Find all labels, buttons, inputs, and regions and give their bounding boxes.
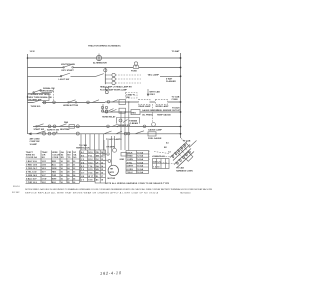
- svg-text:GAUGE LAMP: GAUGE LAMP: [148, 128, 163, 131]
- svg-text:ALTERNATOR: ALTERNATOR: [93, 61, 107, 64]
- svg-text:TO CAB: TO CAB: [79, 144, 87, 147]
- svg-text:MTR: MTR: [110, 172, 115, 174]
- svg-text:LIGHT SW: LIGHT SW: [59, 79, 71, 81]
- svg-text:7 PUR 16 G: 7 PUR 16 G: [26, 182, 37, 184]
- svg-text:NOTE ALL WIRING HARNESS CONN T: NOTE ALL WIRING HARNESS CONN TO BE SEALE…: [105, 182, 170, 185]
- svg-text:16 P: 16 P: [42, 175, 47, 177]
- svg-text:GA: GA: [73, 154, 77, 157]
- svg-text:2 RED 12 B: 2 RED 12 B: [26, 165, 37, 167]
- svg-text:GA: GA: [96, 165, 100, 168]
- svg-text:BLU: BLU: [52, 165, 57, 167]
- svg-text:17 W: 17 W: [42, 179, 47, 181]
- svg-text:NO: NO: [68, 155, 71, 157]
- svg-text:4 YEL 14 D: 4 YEL 14 D: [26, 171, 37, 174]
- svg-text:13 B: 13 B: [42, 165, 47, 167]
- svg-text:TRAC: TRAC: [42, 151, 48, 154]
- svg-text:START SW: START SW: [34, 128, 45, 131]
- svg-text:REG: REG: [132, 112, 137, 114]
- svg-text:6 BLU 16 F: 6 BLU 16 F: [26, 179, 37, 181]
- svg-text:GND: GND: [120, 159, 125, 161]
- svg-text:MOTOR: MOTOR: [108, 178, 116, 180]
- svg-text:1 BLK: 1 BLK: [127, 152, 133, 154]
- svg-text:WHT: WHT: [52, 179, 57, 181]
- svg-text:HORN BUTTON: HORN BUTTON: [63, 105, 79, 107]
- svg-text:OIL PRESS: OIL PRESS: [142, 114, 154, 116]
- svg-text:CB: CB: [96, 152, 99, 154]
- svg-text:FAN: FAN: [64, 121, 69, 124]
- svg-text:ONLY: ONLY: [150, 94, 156, 96]
- svg-text:TO AUX: TO AUX: [172, 107, 180, 110]
- svg-text:FUSE: FUSE: [131, 71, 137, 73]
- svg-text:NOTES WIRE 1 GA 10 BLK IS GRO: NOTES WIRE 1 GA 10 BLK IS GROUNDED TO FR…: [25, 188, 212, 191]
- svg-text:TA 704210: TA 704210: [180, 192, 191, 195]
- svg-text:14 GA: 14 GA: [137, 158, 143, 161]
- svg-text:CIR: CIR: [42, 155, 46, 157]
- svg-text:1 2 3 4: 1 2 3 4: [153, 166, 160, 169]
- svg-text:5 WHT: 5 WHT: [127, 166, 134, 168]
- svg-text:TO BAT: TO BAT: [172, 50, 181, 53]
- svg-text:16 GA: 16 GA: [137, 168, 143, 171]
- svg-text:FLOOD LAMP WORK LAMP: FLOOD LAMP WORK LAMP: [100, 88, 128, 91]
- svg-text:TO ACC LAMPS: TO ACC LAMPS: [106, 138, 122, 141]
- svg-text:HI BEAM: HI BEAM: [129, 119, 138, 122]
- svg-text:1 BLK 10 A: 1 BLK 10 A: [26, 160, 37, 163]
- svg-text:4 YEL: 4 YEL: [127, 161, 133, 164]
- svg-text:COLOR: COLOR: [52, 155, 60, 157]
- svg-text:2 RED: 2 RED: [127, 156, 134, 158]
- svg-text:RED: RED: [52, 161, 57, 163]
- svg-text:WIRE: WIRE: [52, 152, 58, 154]
- svg-text:16 GA: 16 GA: [137, 171, 143, 174]
- svg-text:TURN SIG: TURN SIG: [31, 106, 41, 108]
- svg-text:3 GRN: 3 GRN: [127, 159, 134, 161]
- svg-text:HARNESS CONN: HARNESS CONN: [176, 170, 193, 173]
- svg-text:10 GA: 10 GA: [137, 151, 143, 154]
- svg-text:14 GA: 14 GA: [137, 161, 143, 164]
- svg-text:SW: SW: [96, 156, 99, 158]
- svg-text:HEAD LAMP LH HEAD LAMP RH: HEAD LAMP LH HEAD LAMP RH: [100, 86, 132, 89]
- svg-text:AIR COND: AIR COND: [30, 138, 41, 141]
- svg-text:WIRE NO: WIRE NO: [26, 155, 35, 157]
- svg-text:TRACTOR WIRING SCHEMATIC: TRACTOR WIRING SCHEMATIC: [88, 45, 121, 48]
- svg-text:HR: HR: [110, 169, 113, 171]
- svg-text:HR MTR: HR MTR: [107, 146, 115, 148]
- svg-text:TURN SIGNAL: TURN SIGNAL: [40, 90, 55, 93]
- svg-text:BLK: BLK: [52, 182, 57, 184]
- svg-text:TAIL LAMP: TAIL LAMP: [148, 74, 160, 77]
- svg-text:3 ORG 14 C: 3 ORG 14 C: [26, 167, 38, 170]
- svg-text:CIR: CIR: [68, 152, 72, 154]
- svg-text:12 R: 12 R: [42, 161, 47, 163]
- svg-text:TERM BLOCK: TERM BLOCK: [76, 148, 90, 150]
- svg-text:FIG 10: FIG 10: [13, 186, 20, 188]
- svg-text:DIMMER SW: DIMMER SW: [118, 125, 130, 127]
- svg-text:10 AMP: 10 AMP: [30, 143, 38, 146]
- svg-text:CONN: CONN: [172, 99, 179, 101]
- svg-text:FUEL SENDER: FUEL SENDER: [157, 110, 172, 112]
- svg-text:TO CAB: TO CAB: [176, 167, 184, 170]
- svg-text:18 K: 18 K: [42, 182, 47, 184]
- svg-text:14 G: 14 G: [42, 167, 47, 170]
- svg-text:GRN: GRN: [52, 168, 57, 170]
- svg-text:12 GA: 12 GA: [137, 155, 143, 158]
- svg-text:FUEL GAUGE: FUEL GAUGE: [148, 137, 162, 140]
- svg-text:SIGNAL SW: SIGNAL SW: [43, 87, 55, 90]
- svg-text:FLASHER: FLASHER: [166, 80, 176, 83]
- svg-text:IGNITION SW: IGNITION SW: [61, 64, 76, 66]
- svg-text:16 GA: 16 GA: [137, 165, 143, 168]
- svg-text:6 ORG: 6 ORG: [127, 169, 134, 171]
- svg-text:GA: GA: [61, 151, 65, 154]
- svg-text:AC: AC: [96, 178, 99, 181]
- svg-text:HN: HN: [96, 169, 99, 171]
- svg-text:TO CAB: TO CAB: [183, 139, 191, 142]
- svg-text:TEMP GAUGE: TEMP GAUGE: [157, 113, 171, 116]
- svg-text:HORN RELAY: HORN RELAY: [102, 116, 116, 119]
- svg-text:FO 302: FO 302: [12, 192, 20, 194]
- svg-text:A B C D: A B C D: [153, 161, 161, 164]
- svg-text:5 GRN 14 E: 5 GRN 14 E: [26, 174, 38, 177]
- svg-text:WORK LAMP: WORK LAMP: [156, 105, 169, 108]
- svg-text:FLASHER UNIT RELAY: FLASHER UNIT RELAY: [29, 93, 52, 96]
- svg-text:TO CAB: TO CAB: [172, 96, 180, 99]
- svg-text:TRACT: TRACT: [26, 151, 34, 154]
- svg-text:PUR: PUR: [52, 175, 57, 177]
- svg-text:162-4-10: 162-4-10: [100, 270, 122, 276]
- svg-text:TAN: TAN: [52, 171, 57, 174]
- svg-text:SW: SW: [126, 97, 129, 99]
- svg-text:REAR LAMP: REAR LAMP: [139, 105, 152, 108]
- svg-text:COMP SW: COMP SW: [30, 141, 40, 143]
- svg-text:4 WAY: 4 WAY: [166, 78, 173, 81]
- svg-text:HAZARD SW: HAZARD SW: [29, 98, 42, 101]
- svg-text:7 BLU: 7 BLU: [127, 172, 133, 174]
- svg-text:WITH CAB: WITH CAB: [150, 90, 161, 93]
- svg-text:SERVICE REPLACE ALL WIRE THAT: SERVICE REPLACE ALL WIRE THAT SHOWS WEAR…: [25, 192, 159, 195]
- svg-text:KEY START: KEY START: [62, 69, 75, 72]
